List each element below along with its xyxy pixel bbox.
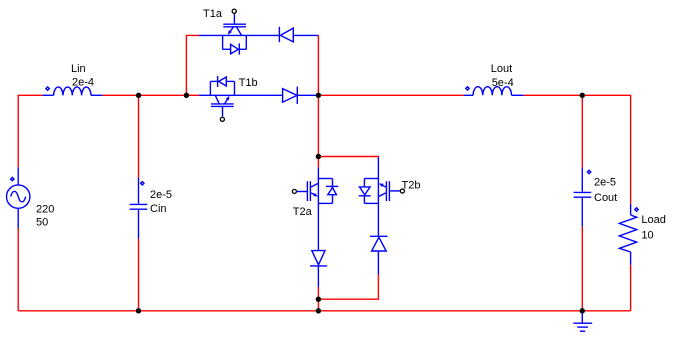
wire source bottom to bottom bus: [17, 228, 19, 311]
wire Lout to node D: [523, 94, 582, 96]
junction node ground: [580, 308, 585, 313]
wire Cout top lead: [581, 95, 583, 167]
ac source VSIN: [7, 167, 30, 228]
svg-text:2e-5: 2e-5: [594, 176, 616, 188]
svg-text:50: 50: [36, 217, 48, 229]
svg-text:2e-5: 2e-5: [150, 189, 172, 201]
wire junction A up to T1a row: [186, 35, 199, 95]
igbt T1a: [199, 9, 279, 54]
resistor Load: [619, 204, 638, 265]
svg-text:T1b: T1b: [239, 77, 258, 89]
terminal gate T1a: [232, 9, 236, 13]
wire T2a bottom to node C: [317, 287, 319, 299]
wire node C to bottom bus: [317, 299, 319, 311]
igbt T1b: [199, 76, 283, 121]
svg-text:T2a: T2a: [293, 206, 313, 218]
capacitor Cin: [130, 178, 148, 239]
wire T1a diode to node B: [317, 35, 319, 95]
inductor Lout: [464, 87, 524, 96]
wire Load bottom lead: [630, 265, 632, 311]
svg-text:T1a: T1a: [203, 8, 223, 20]
svg-text:Lin: Lin: [71, 63, 86, 75]
diode D1b (series, pointing right): [283, 87, 319, 104]
svg-text:Lout: Lout: [491, 63, 512, 75]
svg-text:5e-4: 5e-4: [492, 77, 514, 89]
diode D2a (pointing down): [310, 251, 327, 287]
wire bottom bus middle segment: [139, 310, 319, 312]
wire Cin top lead: [138, 95, 140, 177]
wire node B to Lout: [318, 94, 463, 96]
junction node C: [316, 297, 321, 302]
terminal gate T2b: [400, 189, 404, 193]
svg-text:Cin: Cin: [150, 203, 167, 215]
svg-text:2e-4: 2e-4: [72, 77, 94, 89]
junction node C bus: [316, 308, 321, 313]
junction node Lin/Cin: [136, 93, 141, 98]
wire bottom bus to load corner: [582, 310, 630, 312]
wire branch to T2b top: [318, 157, 378, 158]
igbt T2a: [292, 168, 338, 251]
terminal gate T2a: [292, 189, 296, 193]
terminal gate T1b: [220, 117, 224, 121]
wire Cout bottom lead: [581, 227, 583, 311]
junction node T2 top: [316, 154, 321, 159]
wire bottom bus left segment: [18, 310, 138, 312]
svg-text:T2b: T2b: [402, 179, 421, 191]
wire bottom bus right segment: [318, 310, 582, 312]
wire top-left bus to Lin and down to source: [18, 95, 42, 167]
wire node B down to T2a: [317, 95, 319, 167]
wire Lin to junction A: [102, 94, 186, 96]
igbt T2b: [359, 157, 405, 236]
diode D2b (pointing up): [370, 236, 388, 274]
junction node Cin bottom: [136, 308, 141, 313]
wire Cin bottom lead: [138, 239, 140, 311]
svg-text:Load: Load: [641, 214, 665, 226]
svg-text:Cout: Cout: [594, 192, 617, 204]
capacitor Cout: [574, 168, 592, 227]
wire node C to T2b bottom: [318, 275, 378, 300]
junction node A: [184, 93, 189, 98]
wire junction A to T1b: [186, 94, 199, 96]
wire node D to load corner: [582, 95, 630, 204]
svg-text:220: 220: [36, 203, 54, 215]
inductor Lin: [43, 87, 103, 95]
diode D1a (series, pointing left): [279, 27, 318, 42]
junction node B: [316, 93, 321, 98]
ground: [573, 311, 592, 331]
junction node D: [580, 93, 585, 98]
svg-text:10: 10: [641, 229, 653, 241]
